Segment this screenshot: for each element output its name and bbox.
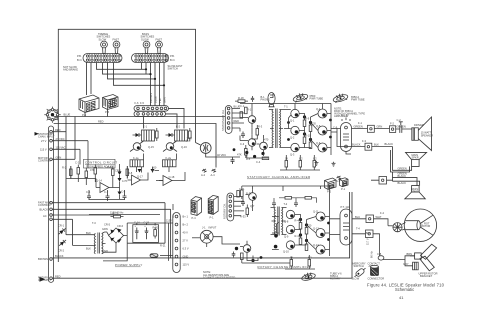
svg-text:Q-10: Q-10 bbox=[283, 250, 289, 254]
svg-text:Q-11: Q-11 bbox=[313, 210, 319, 214]
capacitor C20 bbox=[231, 157, 235, 164]
svg-text:CR-5: CR-5 bbox=[104, 222, 111, 226]
capacitor C1 bbox=[87, 194, 91, 201]
wire: red bottom rail bbox=[52, 192, 352, 278]
svg-text:115 V: 115 V bbox=[183, 263, 190, 267]
svg-text:BLU: BLU bbox=[355, 215, 360, 219]
svg-text:BLK: BLK bbox=[86, 231, 91, 235]
resistor R28 bbox=[305, 228, 308, 235]
relay contact box K2b bbox=[163, 160, 177, 167]
transistor Q19 bbox=[246, 189, 257, 204]
capacitor C4 bbox=[135, 228, 139, 240]
resistor R21 bbox=[313, 161, 316, 168]
node labels left of strip bbox=[38, 132, 55, 282]
svg-text:CONTROL CIRCUIT: CONTROL CIRCUIT bbox=[85, 161, 118, 165]
speaker SP1 driver bbox=[412, 128, 419, 141]
svg-text:BLUE: BLUE bbox=[64, 113, 71, 117]
svg-text:C-1: C-1 bbox=[240, 104, 245, 108]
resistor R5 bbox=[112, 166, 115, 179]
svg-text:R-21: R-21 bbox=[160, 244, 166, 248]
svg-text:BROWN: BROWN bbox=[38, 257, 48, 261]
svg-text:BLACK: BLACK bbox=[398, 181, 407, 185]
junction dots stationary input bbox=[233, 148, 265, 158]
svg-text:C-9: C-9 bbox=[333, 126, 338, 130]
svg-text:YEL: YEL bbox=[158, 98, 162, 103]
note text (tubes) bbox=[334, 106, 365, 118]
svg-text:47K: 47K bbox=[237, 153, 242, 157]
svg-text:R-22: R-22 bbox=[113, 212, 119, 216]
svg-text:BLK: BLK bbox=[374, 143, 379, 147]
wire: red rail bbox=[54, 124, 216, 168]
resistor R24 bbox=[246, 208, 249, 215]
capacitor C17 bbox=[272, 201, 276, 208]
connector box B7 bbox=[352, 230, 415, 266]
svg-text:GRN: GRN bbox=[377, 125, 383, 129]
svg-text:R-5: R-5 bbox=[246, 157, 251, 161]
resistor R9 bbox=[154, 227, 157, 239]
wire: J6 pin leads bbox=[232, 109, 244, 129]
speaker SP1 horn bbox=[418, 117, 431, 151]
resistor R12 bbox=[245, 149, 248, 156]
node: rotary input arrow bbox=[40, 277, 46, 282]
resistor R16 bbox=[303, 137, 306, 144]
motor B9 (rotor drive) bbox=[404, 209, 436, 241]
connector box B10 (speaker feed) bbox=[371, 177, 393, 185]
transistor Q11 bbox=[257, 138, 268, 154]
svg-text:F-3: F-3 bbox=[362, 139, 366, 143]
svg-text:WHT: WHT bbox=[376, 215, 382, 219]
svg-text:Q-3: Q-3 bbox=[290, 153, 295, 157]
resistor R2 bbox=[77, 165, 80, 178]
wire: relay strip outputs bbox=[144, 108, 185, 128]
resistor R4 bbox=[94, 165, 97, 178]
svg-text:1/2 WATT UNLESS NOTED: 1/2 WATT UNLESS NOTED bbox=[203, 276, 235, 280]
ground G4 bbox=[212, 169, 217, 172]
svg-text:GREEN: GREEN bbox=[397, 125, 406, 129]
svg-text:CR-2: CR-2 bbox=[58, 249, 65, 253]
svg-text:P-2: P-2 bbox=[327, 190, 332, 194]
diode CR3 bbox=[136, 133, 140, 137]
svg-text:8.2: 8.2 bbox=[308, 256, 312, 260]
resistor R19 bbox=[285, 161, 288, 168]
junction dots stationary output bbox=[287, 115, 332, 141]
connector plug P2 (molded, isometric) bbox=[103, 95, 119, 110]
resistor R32 bbox=[290, 260, 293, 267]
svg-text:R-2: R-2 bbox=[62, 166, 67, 170]
svg-text:BLACK: BLACK bbox=[398, 174, 407, 178]
tube V3 (top view) bbox=[332, 92, 349, 104]
svg-text:GND: GND bbox=[183, 255, 189, 259]
svg-text:RED: RED bbox=[98, 120, 104, 124]
diode CR5 bbox=[118, 172, 122, 176]
svg-text:BLACK: BLACK bbox=[55, 254, 64, 258]
relay contact strip K1a bbox=[134, 106, 169, 111]
svg-text:BROWN: BROWN bbox=[149, 93, 153, 103]
control circuit label bbox=[84, 159, 116, 168]
connector box B2 bbox=[390, 126, 400, 133]
svg-text:PWR TUBE: PWR TUBE bbox=[310, 96, 324, 100]
wire: rotary top bits bbox=[274, 198, 317, 203]
svg-text:Q-15: Q-15 bbox=[148, 145, 154, 149]
resistor R14 bbox=[262, 157, 269, 160]
ground G3 bbox=[202, 169, 207, 172]
svg-text:470: 470 bbox=[264, 138, 269, 142]
relay contact strip K2a bbox=[134, 111, 166, 116]
value labels (scattered component designators) bbox=[62, 104, 424, 260]
speaker SP3 (cone down) bbox=[405, 186, 426, 199]
svg-text:BLACK: BLACK bbox=[385, 142, 394, 146]
diode CR4 bbox=[169, 133, 173, 137]
svg-text:Q-8: Q-8 bbox=[284, 220, 289, 224]
resistor R11 bbox=[245, 107, 248, 114]
jack J8 (rotary input) bbox=[192, 230, 240, 247]
svg-text:C-11: C-11 bbox=[239, 187, 245, 191]
svg-text:SLOW: SLOW bbox=[352, 277, 360, 281]
transistor Q10 bbox=[244, 135, 256, 151]
svg-text:PWR TUBE: PWR TUBE bbox=[351, 97, 365, 101]
svg-text:K-2: K-2 bbox=[176, 125, 181, 129]
resistor R31 bbox=[189, 128, 192, 141]
svg-text:GRY: GRY bbox=[403, 262, 409, 266]
svg-text:Q-9: Q-9 bbox=[284, 235, 289, 239]
svg-text:SLOW: SLOW bbox=[141, 37, 149, 41]
svg-text:AC: AC bbox=[43, 214, 47, 218]
svg-text:27 V: 27 V bbox=[183, 239, 189, 243]
transformer PT114 (output, rotary) bbox=[340, 209, 352, 245]
diode CR2 (thermal sw) bbox=[58, 238, 67, 247]
connector J6 (stationary amp input strip) bbox=[225, 106, 232, 134]
relay K2 coil bbox=[175, 130, 188, 141]
svg-text:6.3 V: 6.3 V bbox=[183, 247, 189, 251]
transistor Q3 (ujt) bbox=[159, 176, 175, 186]
connector plug P7 (molded, isometric) bbox=[325, 178, 337, 190]
svg-text:4.7K: 4.7K bbox=[122, 179, 128, 183]
svg-text:C-4: C-4 bbox=[256, 160, 261, 164]
capacitor C7 bbox=[241, 200, 245, 207]
svg-text:R-41: R-41 bbox=[295, 234, 301, 238]
svg-text:F-1: F-1 bbox=[358, 121, 362, 125]
note text (resistors) bbox=[203, 270, 235, 280]
relay contact box K1b bbox=[130, 160, 144, 167]
connector box B1 bbox=[352, 125, 390, 132]
svg-text:560: 560 bbox=[152, 166, 157, 170]
svg-text:F-4: F-4 bbox=[380, 211, 384, 215]
wire bundle from S2 down to relay strips bbox=[142, 63, 165, 106]
capacitor C3 bbox=[123, 194, 127, 201]
resistor R17 bbox=[309, 125, 312, 132]
svg-text:220: 220 bbox=[307, 224, 312, 228]
switch S1 (treble tab switches) bbox=[83, 41, 122, 62]
svg-text:CONTROL: CONTROL bbox=[38, 159, 51, 163]
capacitor C19 bbox=[232, 252, 236, 258]
svg-text:Q-2: Q-2 bbox=[290, 136, 295, 140]
svg-text:F-2: F-2 bbox=[390, 122, 394, 126]
svg-text:FAST: FAST bbox=[156, 37, 163, 41]
bridge rectifier CR10 bbox=[105, 223, 128, 252]
diode CR8 bbox=[138, 169, 142, 173]
svg-text:STATIONARY CHANNEL AMPLIFIER: STATIONARY CHANNEL AMPLIFIER bbox=[247, 175, 311, 179]
rotor (upper horn, Y) bbox=[410, 244, 437, 271]
svg-text:DRIVER: DRIVER bbox=[414, 123, 424, 127]
transistor Q7 bbox=[130, 141, 144, 152]
svg-text:R-33: R-33 bbox=[240, 215, 246, 219]
transformer T1 bbox=[66, 232, 106, 254]
svg-text:40 VDC: 40 VDC bbox=[217, 153, 226, 157]
caption bbox=[367, 283, 445, 300]
svg-text:C-6: C-6 bbox=[86, 190, 91, 194]
svg-text:8.2: 8.2 bbox=[313, 157, 317, 161]
wire: control circuit mesh bbox=[66, 141, 185, 218]
ground G2 bbox=[332, 162, 336, 166]
svg-text:P.B.: P.B. bbox=[170, 54, 175, 58]
svg-text:K-2a: K-2a bbox=[166, 156, 172, 160]
wire: J7 pin leads bbox=[234, 197, 244, 216]
svg-text:P-5: P-5 bbox=[105, 110, 110, 114]
svg-text:B+ 1: B+ 1 bbox=[183, 215, 189, 219]
svg-text:P-1: P-1 bbox=[341, 187, 346, 191]
resistor R26 bbox=[299, 223, 302, 230]
resistor R30 bbox=[156, 128, 159, 141]
svg-text:SWITCH: SWITCH bbox=[168, 67, 178, 71]
svg-text:GRN: GRN bbox=[163, 97, 167, 103]
chassis frame line bbox=[58, 29, 195, 262]
svg-text:C-2: C-2 bbox=[75, 161, 80, 165]
svg-text:115 V: 115 V bbox=[40, 148, 47, 152]
speaker SP2 (cone up) bbox=[406, 152, 427, 166]
svg-text:CONNECTOR: CONNECTOR bbox=[368, 277, 385, 281]
svg-text:B+ 2: B+ 2 bbox=[183, 223, 189, 227]
svg-text:Q-17: Q-17 bbox=[137, 175, 143, 179]
connector plug P4 (molded, upright) bbox=[208, 195, 218, 214]
svg-text:MOTOR: MOTOR bbox=[421, 224, 431, 228]
svg-text:ROTARY: ROTARY bbox=[330, 277, 341, 281]
transistor Q9 bbox=[244, 112, 256, 128]
output transistors Q15 Q16 Q17 bbox=[318, 109, 327, 152]
diode CR6 bbox=[118, 178, 122, 182]
svg-text:Q-7: Q-7 bbox=[250, 204, 255, 208]
svg-text:A-4: A-4 bbox=[211, 173, 216, 177]
svg-text:R-40: R-40 bbox=[295, 219, 301, 223]
node: stationary input arrow bbox=[35, 132, 39, 136]
transformer T2 (interstage) bbox=[269, 109, 284, 149]
resistor R35 bbox=[235, 100, 248, 103]
lamp V1 (neon, bottle) bbox=[268, 93, 275, 107]
svg-text:R-20: R-20 bbox=[153, 225, 159, 229]
svg-text:R-1: R-1 bbox=[247, 108, 252, 112]
capacitor C21 bbox=[251, 96, 254, 102]
resistor R15 bbox=[303, 120, 306, 127]
resistor R13 bbox=[256, 129, 259, 136]
svg-text:P.T. 114: P.T. 114 bbox=[341, 205, 351, 209]
resistor R6 bbox=[126, 166, 129, 179]
svg-text:C-8: C-8 bbox=[121, 190, 126, 194]
ground G1 bbox=[315, 161, 319, 165]
svg-text:40 V: 40 V bbox=[183, 231, 189, 235]
svg-text:115V: 115V bbox=[166, 219, 172, 223]
relay K1 coil bbox=[142, 130, 155, 141]
resistor R34 bbox=[237, 191, 240, 198]
svg-text:CONTROL: CONTROL bbox=[38, 203, 51, 207]
wire colour labels (vertical) bbox=[149, 93, 167, 103]
svg-text:BRACKET: BRACKET bbox=[420, 274, 433, 278]
capacitor C18 bbox=[294, 201, 298, 208]
svg-text:47K: 47K bbox=[90, 168, 95, 172]
connector J7 (rotary amp input strip) bbox=[227, 193, 234, 221]
switch S2 (bass tab switches) bbox=[132, 41, 169, 62]
resistor R29 bbox=[305, 244, 308, 251]
svg-text:Q-14: Q-14 bbox=[96, 179, 102, 183]
svg-text:P.B.: P.B. bbox=[77, 54, 82, 58]
connector box B5 bbox=[352, 215, 388, 226]
resistor R1 bbox=[70, 166, 73, 179]
svg-text:SPKR: SPKR bbox=[411, 189, 418, 193]
svg-text:P-4: P-4 bbox=[192, 216, 197, 220]
terminal strip TB1 bbox=[48, 126, 53, 282]
svg-text:Schematic: Schematic bbox=[395, 287, 414, 292]
svg-text:RED: RED bbox=[55, 274, 61, 278]
svg-text:GREEN: GREEN bbox=[398, 167, 407, 171]
ground G5 bbox=[337, 176, 342, 179]
connector plug P3 (molded, upright) bbox=[191, 197, 202, 216]
svg-text:P.T. 27: P.T. 27 bbox=[341, 114, 349, 118]
svg-text:A-2: A-2 bbox=[201, 173, 206, 177]
svg-text:R-6: R-6 bbox=[107, 165, 112, 169]
svg-text:SPEAKER: SPEAKER bbox=[421, 133, 433, 137]
svg-text:K-1a: K-1a bbox=[133, 156, 139, 160]
svg-text:C-14: C-14 bbox=[134, 221, 140, 225]
output transistors Q23 Q24 Q25 bbox=[316, 212, 325, 254]
svg-text:PHONE: PHONE bbox=[261, 97, 270, 101]
svg-text:Q-5: Q-5 bbox=[316, 124, 321, 128]
capacitor C6 bbox=[241, 132, 245, 139]
wire: stationary amp mesh bbox=[240, 104, 365, 171]
wire: rotary amp mesh bbox=[242, 186, 340, 269]
svg-text:Q-1: Q-1 bbox=[290, 119, 295, 123]
capacitor C5 bbox=[145, 228, 149, 240]
svg-text:27 VDC: 27 VDC bbox=[56, 137, 65, 141]
resistor R3 bbox=[85, 168, 88, 181]
svg-text:C-3: C-3 bbox=[240, 142, 245, 146]
transformer T3 (rotary interstage) bbox=[271, 207, 287, 236]
resistor R8 bbox=[111, 215, 124, 218]
fuse F1 bbox=[150, 254, 158, 257]
svg-text:C-7: C-7 bbox=[104, 190, 109, 194]
transistor Q1 (ujt) bbox=[96, 183, 112, 193]
junction dots rotary amp bbox=[251, 218, 330, 262]
svg-text:R-8: R-8 bbox=[128, 171, 133, 175]
svg-text:FAST: FAST bbox=[113, 37, 120, 41]
svg-text:F-6: F-6 bbox=[135, 101, 139, 105]
svg-text:P-1: P-1 bbox=[210, 216, 215, 220]
svg-text:Q-13: Q-13 bbox=[313, 243, 319, 247]
resistor R27 bbox=[299, 238, 302, 245]
resistor R23 bbox=[241, 190, 244, 197]
svg-text:B.O.: B.O. bbox=[77, 58, 82, 62]
svg-text:SWITCH: SWITCH bbox=[354, 264, 364, 268]
svg-text:GRN: GRN bbox=[56, 156, 62, 160]
transistor Q8 bbox=[163, 141, 177, 152]
svg-text:RED: RED bbox=[234, 119, 240, 123]
svg-text:CR-1: CR-1 bbox=[58, 224, 65, 228]
svg-text:F-5: F-5 bbox=[140, 101, 144, 105]
resistor R20 bbox=[299, 161, 302, 168]
svg-text:60 Hz: 60 Hz bbox=[370, 251, 374, 258]
transistor Q18 bbox=[240, 241, 251, 257]
svg-text:R-9: R-9 bbox=[305, 116, 310, 120]
svg-text:CH. INPUT: CH. INPUT bbox=[38, 278, 51, 282]
svg-text:T-4: T-4 bbox=[356, 227, 360, 231]
resistor R10 bbox=[240, 112, 243, 119]
tube V4 (top view) bbox=[301, 271, 316, 282]
svg-text:Q-16: Q-16 bbox=[181, 145, 187, 149]
svg-text:SLOW: SLOW bbox=[99, 37, 107, 41]
connector plug P1 (molded, isometric) bbox=[79, 95, 99, 113]
svg-text:T-1: T-1 bbox=[284, 105, 288, 109]
svg-text:117 V: 117 V bbox=[366, 238, 370, 245]
svg-text:CHAN. INPUT: CHAN. INPUT bbox=[38, 135, 55, 139]
svg-text:1K: 1K bbox=[285, 157, 288, 161]
svg-text:8.2: 8.2 bbox=[299, 157, 303, 161]
resistor R33 bbox=[308, 260, 311, 267]
svg-text:B.O.: B.O. bbox=[170, 58, 175, 62]
tube V2 (top view) bbox=[292, 91, 309, 103]
driver transistors Q12 Q13 Q14 bbox=[291, 109, 299, 151]
svg-text:K-1: K-1 bbox=[143, 125, 148, 129]
connector J1 (input socket, circular) bbox=[44, 107, 60, 123]
svg-text:Q-12: Q-12 bbox=[313, 227, 319, 231]
contact assembly S4 bbox=[368, 261, 381, 268]
svg-text:STATIONARY CH.: STATIONARY CH. bbox=[221, 109, 225, 131]
diode CR1 (thermal sw) bbox=[57, 227, 66, 236]
resistor R18 bbox=[309, 142, 312, 149]
svg-text:J-1: J-1 bbox=[202, 226, 206, 230]
svg-text:C-15: C-15 bbox=[144, 221, 150, 225]
svg-text:RED: RED bbox=[55, 128, 61, 132]
svg-text:C-2: C-2 bbox=[397, 118, 402, 122]
svg-text:R-18: R-18 bbox=[238, 96, 244, 100]
svg-text:R-10: R-10 bbox=[305, 133, 311, 137]
wire: power supply rails bbox=[103, 223, 173, 261]
svg-text:Q-18: Q-18 bbox=[169, 175, 175, 179]
transistor Q2 (ujt) bbox=[128, 175, 144, 185]
resistor R25 bbox=[241, 253, 244, 260]
svg-text:R-31: R-31 bbox=[246, 192, 252, 196]
wire bundle from S1 (staircase to amp) bbox=[97, 63, 165, 86]
transformer PT27 (output, stationary) bbox=[341, 118, 352, 152]
svg-text:GRN: GRN bbox=[102, 227, 108, 231]
capacitor C8 (crossover) bbox=[399, 122, 412, 133]
svg-text:ROTARY CHANNEL AMPLIFIER: ROTARY CHANNEL AMPLIFIER bbox=[258, 265, 312, 269]
capacitor C16 (inline, rotor run) bbox=[378, 256, 384, 260]
junction dots (switch bus) bbox=[145, 68, 165, 86]
mercury switch S3 bbox=[353, 261, 366, 268]
svg-text:Q-4: Q-4 bbox=[316, 107, 321, 111]
svg-text:BLK: BLK bbox=[366, 231, 371, 235]
svg-text:T-3: T-3 bbox=[92, 221, 96, 225]
svg-text:POWER SUPPLY: POWER SUPPLY bbox=[115, 263, 143, 267]
svg-text:220: 220 bbox=[312, 121, 317, 125]
svg-text:BLACK: BLACK bbox=[352, 143, 361, 147]
wire: strip feeds bbox=[52, 63, 170, 258]
connector box B3 bbox=[365, 143, 393, 150]
wire: feed to rotary speakers bbox=[391, 147, 420, 186]
svg-text:Q-6: Q-6 bbox=[316, 141, 321, 145]
svg-text:BLACK: BLACK bbox=[40, 208, 49, 212]
svg-text:GREEN: GREEN bbox=[354, 125, 363, 129]
wire: brown rail (long bottom) bbox=[52, 192, 349, 258]
svg-text:ROTARY CH.: ROTARY CH. bbox=[223, 203, 227, 219]
svg-text:41: 41 bbox=[399, 295, 404, 300]
